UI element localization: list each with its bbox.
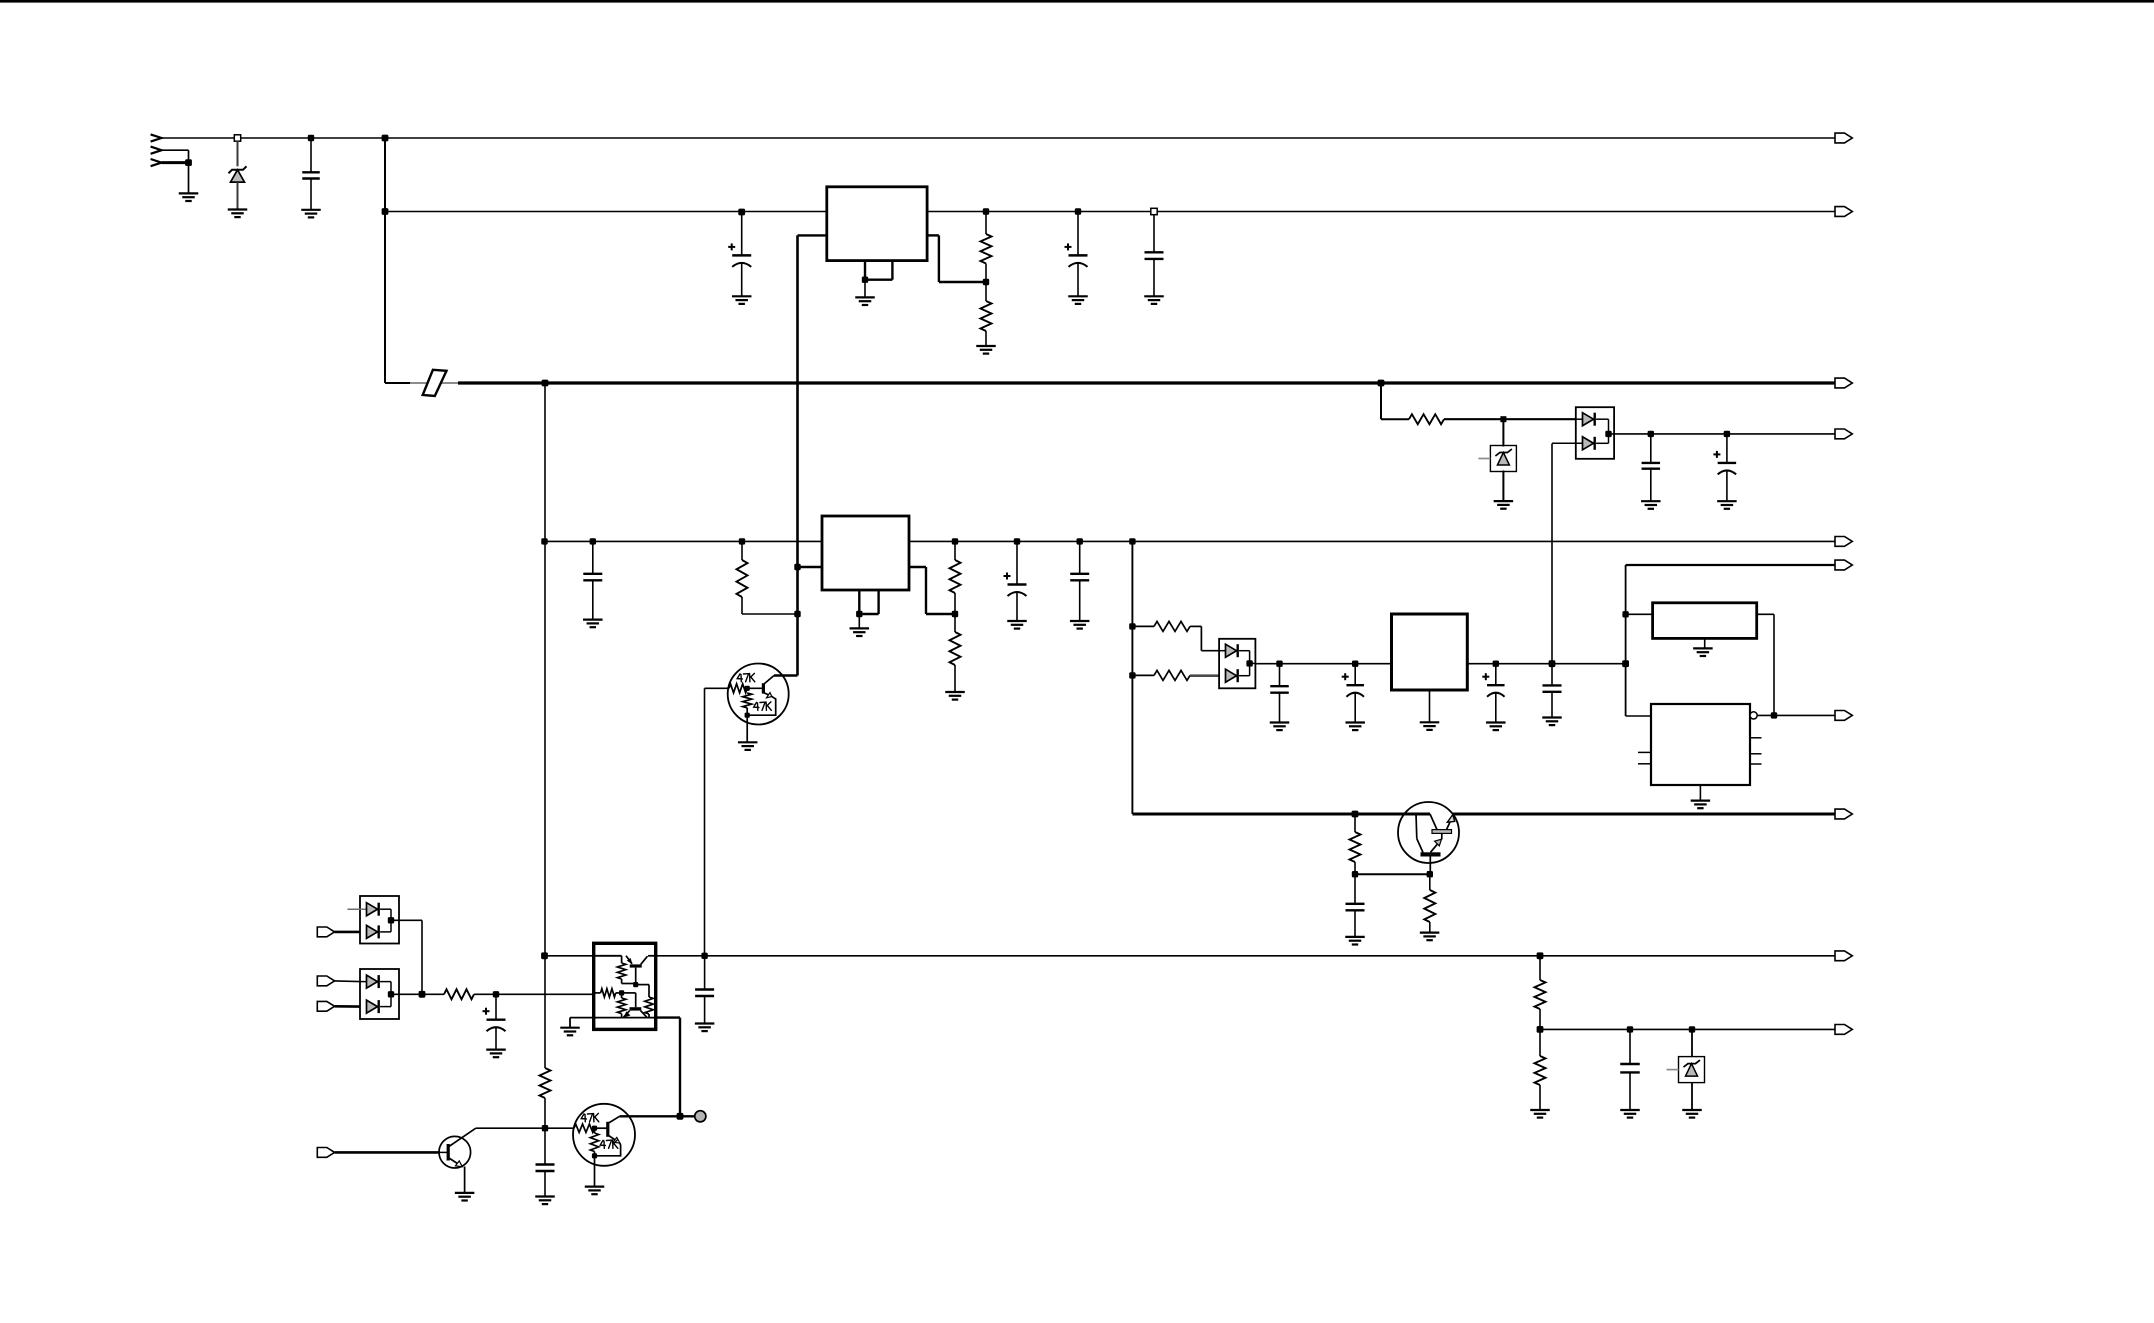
wire	[1609, 433, 1836, 435]
wire	[474, 993, 594, 995]
transistor Q3	[439, 1136, 471, 1168]
wire	[927, 211, 1835, 213]
wire	[476, 1127, 545, 1129]
wire	[656, 1016, 680, 1018]
resistor R11	[1537, 952, 1544, 959]
ground	[1641, 500, 1661, 502]
resistor R10	[1409, 414, 1444, 424]
wire	[1444, 418, 1503, 420]
ground	[1682, 1109, 1702, 1111]
wire	[335, 931, 360, 934]
wire	[620, 1115, 680, 1117]
wire	[656, 955, 1835, 957]
capacitor C3	[1075, 208, 1081, 214]
ground	[732, 295, 752, 297]
wire	[1255, 663, 1391, 665]
node C	[1500, 416, 1506, 422]
wire	[419, 991, 426, 998]
capacitor C8	[1276, 661, 1282, 667]
ground	[455, 1192, 475, 1194]
wire	[1453, 813, 1836, 816]
terminal	[1835, 711, 1852, 721]
wire	[1429, 690, 1431, 722]
resistor R4	[952, 538, 958, 544]
wire	[570, 1017, 594, 1019]
ground	[1420, 931, 1440, 933]
resistor R8	[1129, 623, 1135, 629]
resistor R7	[1429, 874, 1431, 890]
ground	[945, 691, 965, 693]
ground	[738, 741, 758, 743]
resistor R2	[985, 282, 987, 301]
ground	[1542, 716, 1562, 718]
wire	[909, 540, 1835, 542]
zener diode D1	[234, 135, 240, 141]
dc-dc converter U4	[1392, 614, 1468, 690]
terminal	[317, 927, 334, 937]
wire	[335, 1005, 360, 1008]
resistor R3	[739, 538, 745, 544]
wire	[1757, 613, 1774, 615]
wire	[162, 161, 189, 164]
voltage regulator U1	[827, 187, 927, 261]
wire	[385, 382, 410, 384]
wire	[1380, 383, 1382, 419]
ground	[560, 1027, 580, 1029]
wire	[909, 566, 926, 568]
wire	[382, 135, 389, 142]
capacitor C17	[701, 953, 707, 959]
resistor R13	[444, 989, 474, 999]
terminal	[317, 1001, 334, 1011]
terminal	[1835, 951, 1852, 961]
ground	[1486, 721, 1506, 723]
terminal	[1835, 560, 1852, 570]
capacitor C11	[1549, 660, 1556, 667]
ground	[855, 296, 875, 298]
crystal Y1	[1653, 603, 1757, 639]
resistor R6	[1354, 814, 1356, 832]
capacitor C6	[1014, 538, 1020, 544]
wire	[1626, 564, 1835, 566]
ground	[585, 1185, 605, 1187]
ground	[976, 345, 996, 347]
tvs diode D3	[1689, 1026, 1695, 1032]
capacitor C14	[1354, 874, 1356, 904]
terminal	[317, 1148, 334, 1158]
ground	[1620, 1109, 1640, 1111]
resistor R1	[983, 208, 989, 214]
terminal	[1835, 133, 1852, 143]
optocoupler U5	[1576, 407, 1614, 459]
wire	[1757, 714, 1835, 716]
resistor R12	[1539, 1029, 1541, 1056]
voltage regulator U2	[822, 516, 909, 590]
wire	[798, 566, 823, 568]
ground	[1717, 500, 1737, 502]
transistor Q4	[573, 1104, 635, 1166]
wire	[410, 382, 458, 384]
transistor Q2	[1398, 802, 1459, 863]
wire	[421, 920, 423, 994]
ground	[228, 208, 248, 210]
ground	[1420, 721, 1440, 723]
ground	[179, 192, 199, 194]
wire	[1355, 873, 1430, 875]
capacitor C18	[544, 1128, 546, 1164]
transistor array U9	[594, 943, 656, 1029]
ground	[1530, 1109, 1550, 1111]
wire	[458, 381, 1835, 384]
ground	[1691, 799, 1711, 801]
ground	[1270, 721, 1290, 723]
capacitor C4	[1151, 208, 1157, 214]
wire	[162, 149, 189, 151]
ground	[486, 1048, 506, 1050]
oscillator U6	[1651, 704, 1750, 785]
capacitor C1	[308, 135, 314, 141]
wire	[927, 234, 939, 236]
wire	[382, 208, 389, 215]
ground	[1345, 936, 1365, 938]
ground	[1345, 721, 1365, 723]
capacitor C9	[1352, 661, 1358, 667]
node B	[1378, 380, 1385, 387]
capacitor C7	[1077, 538, 1083, 544]
capacitor C2	[738, 209, 745, 216]
terminal	[317, 976, 334, 986]
ground	[1494, 500, 1514, 502]
wire	[544, 383, 546, 956]
terminal	[1835, 809, 1852, 819]
resistor R5	[954, 614, 956, 632]
terminal	[1835, 207, 1852, 217]
ground	[1070, 620, 1090, 622]
terminal	[1835, 429, 1852, 439]
terminal	[1835, 378, 1852, 388]
transistor Q1	[728, 664, 789, 725]
capacitor C12	[1648, 431, 1654, 437]
ground	[1693, 647, 1713, 649]
capacitor C15	[1627, 1026, 1633, 1032]
optocoupler U8	[360, 969, 399, 1019]
capacitor C13	[1724, 431, 1730, 437]
wire	[1467, 663, 1625, 665]
ground	[1068, 295, 1088, 297]
wire	[1704, 638, 1706, 648]
ground	[1007, 620, 1027, 622]
wire	[162, 137, 1836, 139]
capacitor C16	[493, 991, 499, 997]
ground	[583, 618, 603, 620]
resistor R9	[1129, 672, 1135, 678]
node D	[1622, 611, 1628, 617]
tvs diode D2	[1502, 419, 1504, 446]
wire	[864, 261, 866, 280]
wire	[1132, 813, 1430, 816]
optocoupler U3	[1219, 639, 1255, 689]
terminal	[1835, 537, 1852, 547]
wire	[858, 590, 860, 614]
capacitor C5	[590, 538, 596, 544]
test point TP1	[680, 1115, 695, 1117]
wire	[335, 1151, 440, 1154]
fuse F1	[423, 370, 447, 396]
node A	[542, 380, 549, 387]
ground	[850, 627, 870, 629]
wire	[1551, 444, 1553, 664]
wire	[541, 538, 547, 544]
wire	[1352, 811, 1359, 818]
connector J1	[151, 134, 162, 141]
wire	[1129, 538, 1135, 544]
ground	[695, 1022, 715, 1024]
capacitor C10	[1493, 661, 1499, 667]
wire	[1540, 1028, 1835, 1030]
ground	[535, 1195, 555, 1197]
resistor R14	[544, 956, 546, 1068]
terminal	[1835, 1025, 1852, 1035]
wire	[335, 980, 360, 983]
wire	[798, 234, 827, 236]
wire	[704, 688, 706, 956]
wire	[1699, 785, 1701, 801]
ground	[301, 209, 321, 211]
ground	[1144, 295, 1164, 297]
optocoupler U7	[360, 896, 399, 944]
